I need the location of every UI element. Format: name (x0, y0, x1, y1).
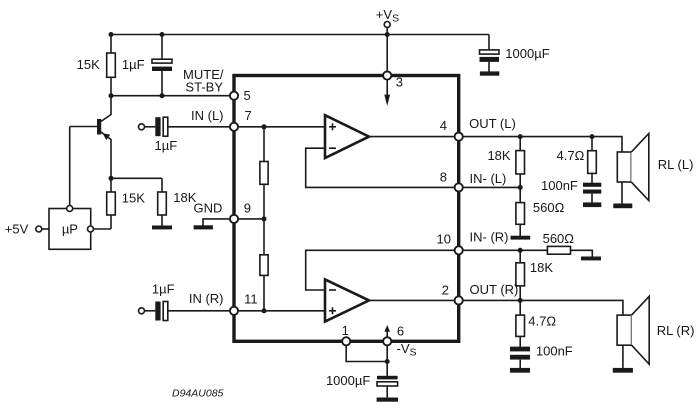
label 1uF C4 (152, 281, 175, 296)
pin number 5 (244, 88, 251, 103)
label IN- (R) (470, 230, 509, 245)
svg-text:11: 11 (244, 291, 258, 306)
wire pin 11 to op-amp B (238, 310, 325, 312)
svg-text:1µF: 1µF (152, 281, 175, 296)
resistor R6 560ohm left channel (516, 203, 525, 225)
wire IN (R) input to cap (145, 310, 156, 312)
label MUTE/ST-BY (183, 67, 224, 94)
label 100nF C5 (541, 178, 578, 193)
svg-text:1000µF: 1000µF (505, 46, 549, 61)
wire +Vs drop to pin 3 (386, 28, 388, 73)
resistor R4 internal upper (260, 162, 268, 185)
svg-text:7: 7 (245, 108, 252, 123)
node +Vs terminal (384, 22, 390, 28)
svg-text:IN- (L): IN- (L) (470, 171, 507, 186)
pin 11 (230, 307, 238, 315)
wire Q1 collector (101, 96, 111, 122)
pin number 6 (397, 324, 404, 339)
label 560ohm R6 (533, 200, 565, 215)
pin 1 (342, 337, 350, 345)
pin number 7 (245, 108, 252, 123)
svg-text:8: 8 (440, 169, 447, 184)
label uP (62, 222, 78, 237)
svg-text:ST-BY: ST-BY (185, 79, 223, 94)
pin 6 (383, 337, 391, 345)
label 18K R5 (487, 148, 510, 163)
wire Q1 emitter (101, 132, 111, 178)
node microprocessor right pin (88, 226, 94, 232)
resistor R5 18K left channel (516, 151, 525, 174)
pin 9 (230, 215, 238, 223)
label IN (R) (189, 291, 224, 306)
capacitor C1 1uF mute (152, 59, 172, 71)
wire pin 9 internal (238, 218, 264, 220)
capacitor C3 1uF IN (L) (155, 117, 168, 136)
svg-text:15K: 15K (77, 57, 100, 72)
wire base of Q1 (70, 126, 97, 128)
ground GND pin 9 (194, 225, 213, 229)
wire OUT (R) rail (463, 300, 623, 315)
svg-text:18K: 18K (530, 260, 553, 275)
label RL (R) (657, 323, 695, 338)
op-amp U1B (325, 279, 369, 321)
pin 4 (455, 133, 463, 141)
label OUT (R) (470, 282, 519, 297)
wire 560ohm R6 column (519, 187, 521, 236)
resistor R1 15K top-left (107, 53, 116, 77)
svg-text:3: 3 (396, 75, 403, 90)
label 1uF C1 (122, 57, 145, 72)
svg-text:2: 2 (442, 283, 449, 298)
svg-text:1000µF: 1000µF (326, 373, 370, 388)
label 1000uF supply (505, 46, 549, 61)
capacitor C4 1uF IN (R) (155, 302, 168, 321)
ground right of R8 (581, 257, 601, 261)
label 18K R3 (173, 190, 196, 205)
svg-text:µP: µP (62, 222, 78, 237)
resistor R2 15K (107, 192, 116, 215)
capacitor C2 1000uF supply (480, 50, 500, 62)
svg-text:D94AU085: D94AU085 (172, 387, 224, 399)
ground under C8 (377, 398, 399, 402)
resistor R10 4.7ohm right channel (516, 315, 525, 336)
wire pin 6 below (386, 345, 388, 361)
label 100nF C7 (536, 344, 573, 359)
wire C5 to ground (591, 194, 593, 203)
ground under C5 (583, 202, 601, 207)
wire 4.7ohm R9 column (591, 137, 593, 183)
svg-text:100nF: 100nF (541, 178, 578, 193)
ground under speaker L (613, 204, 632, 209)
wire IN (R) cap to pin 11 (168, 310, 234, 312)
pin number 1 (342, 323, 349, 338)
svg-text:+5V: +5V (5, 222, 29, 237)
wire 15K R2 column (110, 178, 112, 229)
capacitor C5 100nF left channel (583, 183, 601, 194)
label 1uF C3 (155, 138, 178, 153)
wire IN- (R) pin 10 (463, 249, 548, 251)
pin number 3 (396, 75, 403, 90)
label IN (L) (191, 108, 224, 123)
wire C1 bottom lead (161, 71, 163, 96)
wire C2 supply lead bottom (488, 62, 490, 72)
node IN (R) terminal (139, 308, 145, 314)
label 4.7ohm R10 (528, 313, 556, 328)
svg-text:4.7Ω: 4.7Ω (557, 148, 585, 163)
wire internal divider chain (263, 127, 265, 311)
label RL (L) (658, 157, 694, 172)
ground under C7 (510, 368, 530, 373)
wire emitter rail (111, 177, 162, 179)
svg-text:18K: 18K (487, 148, 510, 163)
svg-text:10: 10 (437, 232, 451, 247)
svg-text:9: 9 (244, 200, 251, 215)
svg-text:100nF: 100nF (536, 344, 573, 359)
svg-text:1µF: 1µF (122, 57, 145, 72)
svg-text:GND: GND (194, 200, 223, 215)
ground under R6 (511, 236, 531, 240)
svg-text:15K: 15K (122, 191, 145, 206)
node IN (L) terminal (139, 124, 145, 130)
wire C1 top lead (161, 35, 163, 60)
wire op-amp A output to pin 4 (369, 136, 455, 138)
wire pin 1 below (346, 345, 387, 361)
resistor R4b internal lower (260, 255, 268, 276)
wire speaker R to ground (622, 345, 624, 368)
pin 10 (455, 246, 463, 254)
wire +5V terminal to box (42, 228, 49, 230)
wire 4.7ohm R10 column (519, 300, 521, 346)
wire IN (L) cap to pin 7 (168, 126, 234, 128)
svg-text:4.7Ω: 4.7Ω (528, 313, 556, 328)
svg-text:4: 4 (440, 118, 447, 133)
wire +Vs top rail (111, 34, 489, 36)
wire op-amp B feedback from pin 10 (306, 250, 455, 290)
IC power amplifier block (234, 76, 459, 342)
pin number 10 (437, 232, 451, 247)
label 15K R1 (77, 57, 100, 72)
svg-text:IN- (R): IN- (R) (470, 230, 509, 245)
node +5V terminal (36, 226, 42, 232)
ground under R3 (152, 226, 172, 230)
pin 7 (230, 123, 238, 131)
wire 18K R3 column (161, 178, 163, 225)
svg-text:OUT (L): OUT (L) (469, 116, 516, 131)
wire 18K R7 column (519, 250, 521, 300)
pin 3 (383, 71, 391, 79)
label GND (194, 200, 223, 215)
svg-text:IN (R): IN (R) (189, 291, 224, 306)
wire mute/st-by rail to pin 5 (111, 95, 234, 97)
speaker RL (L) (617, 134, 649, 201)
svg-text:5: 5 (244, 88, 251, 103)
pin number 9 (244, 200, 251, 215)
wire C7 to ground (519, 360, 521, 368)
svg-text:1: 1 (342, 323, 349, 338)
label D94AU085 (172, 387, 224, 399)
pin 8 (455, 183, 463, 191)
resistor R7 18K right channel (516, 263, 525, 286)
wire microprocessor top drop (69, 127, 71, 206)
wire pin 7 to op-amp A (238, 126, 325, 128)
svg-text:1µF: 1µF (155, 138, 178, 153)
wire op-amp A feedback from pin 8 (306, 148, 455, 187)
resistor R8 560ohm horizontal (547, 246, 570, 254)
wire IN- (L) pin 8 (463, 186, 521, 188)
arrow into pin 3 (384, 80, 390, 106)
wire 18K R5 column (519, 137, 521, 188)
label +Vs (376, 7, 399, 25)
svg-text:IN (L): IN (L) (191, 108, 224, 123)
wire IN (L) input to cap (145, 126, 156, 128)
svg-text:6: 6 (397, 324, 404, 339)
label OUT (L) (469, 116, 516, 131)
wire speaker L to ground (621, 182, 623, 204)
label +5V (5, 222, 29, 237)
microprocessor block (49, 209, 91, 250)
wire microprocessor right pin (94, 228, 112, 230)
arrow into pin 6 (384, 325, 390, 337)
wire C8 lead top (386, 362, 388, 377)
pin 2 (455, 296, 463, 304)
label 18K R7 (530, 260, 553, 275)
wire C8 lead bottom (386, 386, 388, 398)
resistor R3 18K (158, 192, 167, 215)
label 560ohm R8 (543, 231, 575, 246)
label IN- (L) (470, 171, 507, 186)
label 15K R2 (122, 191, 145, 206)
pin number 8 (440, 169, 447, 184)
wire op-amp B output to pin 2 (369, 299, 455, 301)
wire OUT (L) rail (463, 137, 622, 153)
svg-text:RL (R): RL (R) (657, 323, 695, 338)
svg-text:OUT (R): OUT (R) (470, 282, 519, 297)
wire 15K R1 column (110, 35, 112, 96)
wire 560ohm R8 right lead to ground (571, 250, 593, 256)
op-amp U1A (325, 115, 369, 158)
node microprocessor top pin (67, 206, 73, 212)
ground under speaker R (613, 368, 633, 373)
capacitor C7 100nF right channel (510, 347, 530, 360)
svg-text:RL (L): RL (L) (658, 157, 694, 172)
pin 5 (230, 92, 238, 100)
wire C2 supply lead top (488, 35, 490, 51)
speaker RL (R) (617, 296, 649, 364)
capacitor C8 1000uF -Vs (377, 376, 398, 386)
pin number 11 (244, 291, 258, 306)
wire GND stub pin 9 (203, 219, 230, 226)
resistor R9 4.7ohm left channel (588, 151, 597, 174)
svg-text:560Ω: 560Ω (543, 231, 575, 246)
label 1000uF C8 (326, 373, 370, 388)
label -Vs (397, 341, 417, 359)
svg-text:560Ω: 560Ω (533, 200, 565, 215)
pin number 2 (442, 283, 449, 298)
pin number 4 (440, 118, 447, 133)
ground under C2 (480, 71, 499, 75)
label 4.7ohm R9 (557, 148, 585, 163)
transistor Q1 PNP (97, 119, 110, 140)
